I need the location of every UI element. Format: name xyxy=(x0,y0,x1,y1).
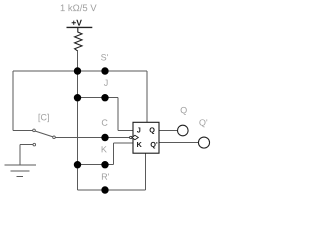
switch bottom throw contact xyxy=(33,143,36,146)
ground symbol xyxy=(5,165,36,176)
pin label Q' xyxy=(151,142,158,149)
node label J xyxy=(104,80,108,86)
node label R' xyxy=(102,174,109,180)
wire: Q' output xyxy=(159,142,198,144)
wire: ground vertical xyxy=(19,145,21,166)
clock input wedge xyxy=(132,135,138,139)
wire: S' down to preset pin xyxy=(146,71,148,122)
switch top throw contact xyxy=(33,129,36,132)
wire: K bend up xyxy=(112,143,114,165)
switch label [C] xyxy=(39,114,49,122)
clock input contact circle xyxy=(130,136,132,138)
wire: K into flip-flop xyxy=(113,142,133,144)
resistor R1 1 kOhm pull-up xyxy=(75,28,82,51)
pin label K xyxy=(137,142,142,147)
switch [C] blade xyxy=(35,131,53,137)
wire: pull-up bus vertical xyxy=(77,51,79,190)
probe lamp Q' xyxy=(198,137,209,148)
output label Q xyxy=(181,107,187,115)
terminal J xyxy=(101,94,108,101)
wire: S' row horizontal xyxy=(13,70,147,72)
switch common contact xyxy=(53,136,56,139)
label 1 kOhm / 5 V xyxy=(61,4,97,11)
wire: Q output xyxy=(159,130,177,132)
flip-flop U1 body xyxy=(133,122,159,153)
terminal C xyxy=(101,134,108,141)
wire: R' up to clear pin xyxy=(144,153,146,190)
terminal S' xyxy=(101,67,108,74)
output label Q' xyxy=(199,119,207,127)
wire: bottom throw to ground xyxy=(20,144,33,146)
pin label Q xyxy=(150,127,155,134)
terminal R' xyxy=(101,186,108,193)
wire: left branch vertical to switch xyxy=(12,71,14,130)
probe lamp Q xyxy=(178,125,189,136)
wire: J row horizontal xyxy=(78,97,119,99)
wire: C row from switch to clock wedge xyxy=(55,137,130,139)
wire: left branch to switch top contact xyxy=(13,129,33,131)
junction bus / J row xyxy=(74,94,81,101)
junction bus / K row xyxy=(74,161,81,168)
wire: K row horizontal xyxy=(78,164,114,166)
terminal K xyxy=(101,161,108,168)
node label K xyxy=(102,146,107,152)
junction bus / S' row xyxy=(74,67,81,74)
power +V label xyxy=(72,20,82,26)
wire: J into flip-flop xyxy=(118,130,133,132)
pin label J xyxy=(137,127,140,132)
wire: J bend down xyxy=(117,98,119,131)
node label S' xyxy=(101,54,108,60)
node label C xyxy=(102,119,108,125)
wire: R' bottom horizontal xyxy=(78,189,146,191)
power rail bar xyxy=(67,26,93,28)
